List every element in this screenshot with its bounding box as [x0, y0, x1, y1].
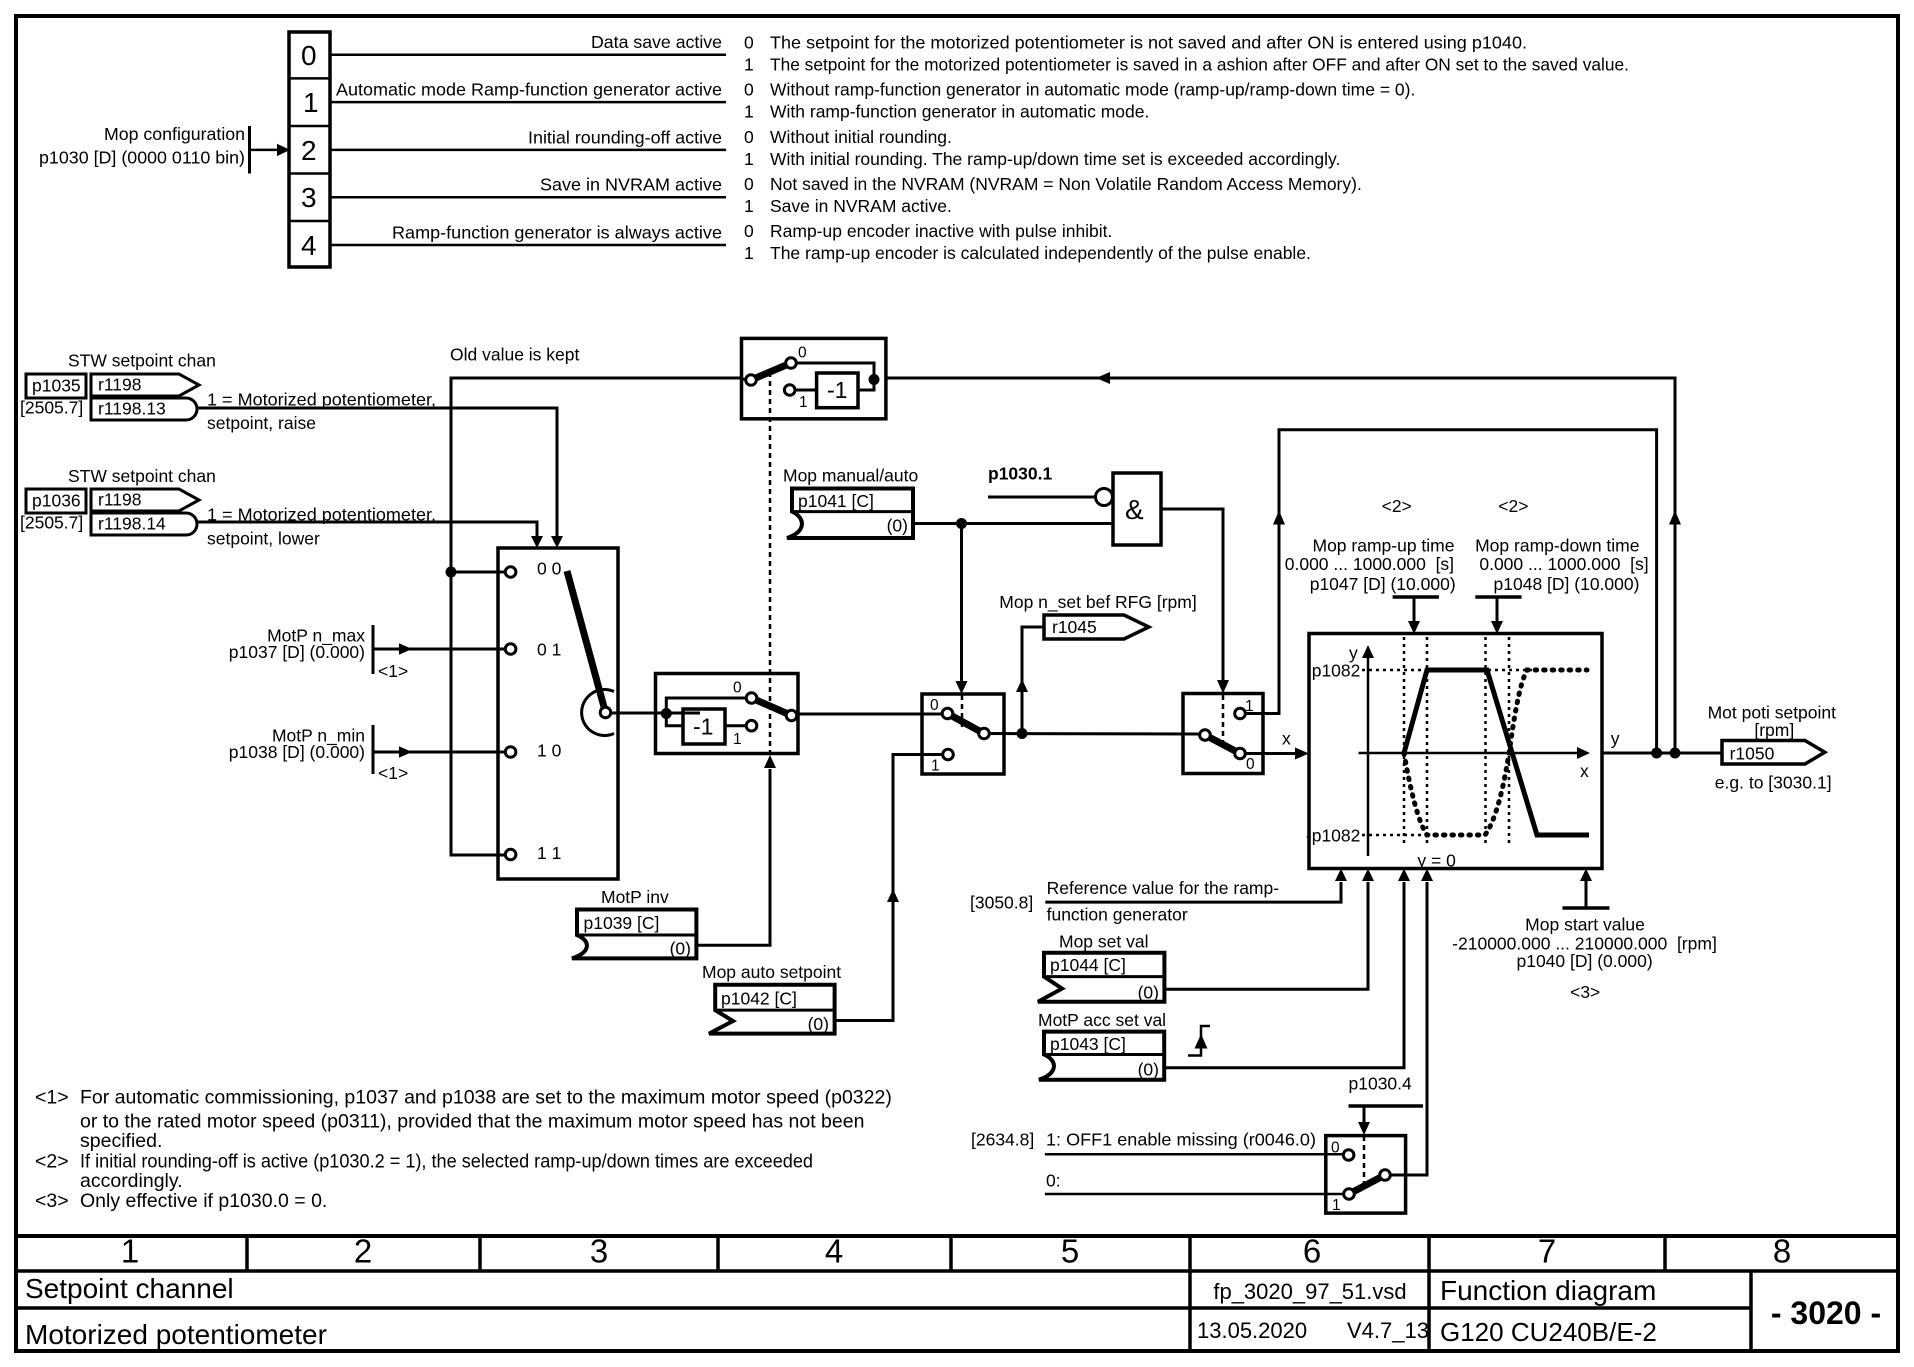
- wire -1 out: [858, 380, 874, 391]
- lever: [1205, 735, 1240, 754]
- wire reference value to RFG: [1045, 882, 1341, 902]
- lever old-value switch: [751, 363, 791, 380]
- wire x into RFG: [1245, 752, 1296, 755]
- selector arc: [582, 690, 614, 736]
- svg-text:y: y: [1611, 729, 1620, 749]
- svg-text:r1050: r1050: [1730, 744, 1775, 764]
- wire 0-contact to output: [791, 363, 874, 380]
- svg-text:Old value is kept: Old value is kept: [450, 345, 580, 365]
- wire OFF1 1-line: [1045, 1153, 1344, 1156]
- connector input p1039: [572, 910, 696, 959]
- T-bar p1048: [1475, 595, 1521, 599]
- svg-text:G120 CU240B/E-2: G120 CU240B/E-2: [1440, 1317, 1657, 1347]
- bit flag r1198.14: [91, 513, 197, 535]
- svg-text:Not saved in the NVRAM (NVRAM: Not saved in the NVRAM (NVRAM = Non Vola…: [770, 174, 1362, 194]
- wire control to manual-auto switch: [960, 524, 963, 683]
- connector output r1050: [1722, 741, 1825, 765]
- svg-text:p1030.4: p1030.4: [1349, 1074, 1413, 1094]
- lever MotP inv switch: [752, 698, 792, 716]
- svg-text:<3>: <3>: [35, 1190, 69, 1212]
- wire bit0: [330, 54, 726, 57]
- svg-text:-p1082: -p1082: [1306, 826, 1361, 846]
- svg-text:0: 0: [744, 174, 754, 194]
- svg-text:0: 0: [1331, 1139, 1340, 1156]
- svg-text:4: 4: [301, 230, 317, 261]
- ramp solid curve: [1404, 670, 1589, 835]
- ramp dashed curve: [1404, 670, 1587, 835]
- wire p1042 to manual/auto switch: [835, 755, 943, 1021]
- notes: [35, 1086, 892, 1212]
- wire old value feedback left: [451, 378, 742, 855]
- title block: [16, 1236, 1898, 1351]
- contact 01: [505, 644, 516, 655]
- wire hold feedback up: [1245, 430, 1657, 753]
- svg-text:specified.: specified.: [80, 1130, 162, 1152]
- svg-text:p1041 [C]: p1041 [C]: [798, 491, 874, 511]
- bit value descriptions: [744, 33, 1629, 264]
- svg-text:7: 7: [1538, 1233, 1556, 1270]
- binector input p1042: [709, 985, 835, 1034]
- wire p1044 to RFG: [1164, 882, 1368, 989]
- svg-text:setpoint, raise: setpoint, raise: [207, 413, 316, 433]
- svg-text:1: 1: [121, 1233, 139, 1270]
- AND gate with inverted input: [1113, 473, 1161, 545]
- dashed control: [961, 695, 964, 729]
- wire bit1: [330, 101, 726, 104]
- svg-text:0:: 0:: [1046, 1171, 1061, 1191]
- svg-text:(0): (0): [1138, 1060, 1159, 1080]
- svg-text:[rpm]: [rpm]: [1754, 720, 1794, 740]
- svg-text:(0): (0): [808, 1014, 829, 1034]
- svg-text:0: 0: [301, 40, 317, 71]
- svg-text:0: 0: [744, 127, 754, 147]
- switch box OFF1: [1326, 1136, 1406, 1214]
- svg-text:Without initial rounding.: Without initial rounding.: [770, 127, 952, 147]
- svg-text:Data save active: Data save active: [591, 32, 722, 52]
- wire p1030 to box: [250, 149, 279, 152]
- svg-text:2: 2: [301, 135, 317, 166]
- svg-text:p1043 [C]: p1043 [C]: [1050, 1034, 1126, 1054]
- svg-text:function generator: function generator: [1047, 905, 1188, 925]
- svg-text:6: 6: [1303, 1233, 1321, 1270]
- svg-text:accordingly.: accordingly.: [80, 1170, 183, 1192]
- x axis: [1359, 752, 1579, 755]
- RFG bottom input arrows: [1335, 869, 1347, 882]
- wire raise to selector: [197, 408, 557, 536]
- wire bit4: [330, 244, 726, 247]
- svg-text:0.000 ... 1000.000 [s]: 0.000 ... 1000.000 [s]: [1285, 554, 1454, 574]
- svg-text:p1047 [D] (10.000): p1047 [D] (10.000): [1310, 574, 1456, 594]
- 1 contact: [1235, 708, 1246, 719]
- svg-text:STW setpoint chan: STW setpoint chan: [68, 466, 216, 486]
- wire out to hold switch: [989, 732, 1200, 736]
- svg-text:0: 0: [1246, 756, 1255, 773]
- dashed control: [1363, 1136, 1366, 1184]
- bit flag r1198.13: [91, 398, 197, 420]
- 0 contact: [1343, 1150, 1354, 1161]
- svg-text:Only effective if p1030.0 = 0.: Only effective if p1030.0 = 0.: [80, 1190, 327, 1212]
- binector flag r1198: [91, 374, 199, 396]
- svg-text:0: 0: [744, 221, 754, 241]
- svg-text:Motorized potentiometer: Motorized potentiometer: [25, 1319, 327, 1350]
- svg-text:fp_3020_97_51.vsd: fp_3020_97_51.vsd: [1213, 1279, 1406, 1304]
- svg-text:p1037 [D] (0.000): p1037 [D] (0.000): [229, 642, 365, 662]
- ramp-function generator box: [1309, 634, 1602, 869]
- svg-text:p1036: p1036: [32, 491, 81, 511]
- lever: [948, 714, 985, 734]
- parameter box p1035: [26, 374, 86, 398]
- svg-text:1: 1: [1332, 1197, 1341, 1214]
- svg-text:Ramp-up encoder inactive with: Ramp-up encoder inactive with pulse inhi…: [770, 221, 1112, 241]
- svg-text:r1045: r1045: [1052, 617, 1097, 637]
- column numbers: [121, 1233, 1791, 1270]
- wire old-value feedback: [886, 378, 1675, 753]
- svg-text:MotP inv: MotP inv: [601, 887, 669, 907]
- svg-text:With initial rounding. The ram: With initial rounding. The ramp-up/down …: [770, 149, 1340, 169]
- svg-text:1: 1: [744, 243, 754, 263]
- svg-text:<3>: <3>: [1570, 982, 1600, 1002]
- junction hold feedback: [1651, 748, 1662, 759]
- contact 10: [505, 747, 516, 758]
- svg-text:(0): (0): [670, 939, 691, 959]
- bit-field box p1030: [289, 32, 330, 267]
- svg-text:<2>: <2>: [1498, 496, 1528, 516]
- svg-text:Save in NVRAM active.: Save in NVRAM active.: [770, 196, 952, 216]
- svg-text:[2634.8]: [2634.8]: [971, 1130, 1034, 1150]
- svg-text:4: 4: [825, 1233, 843, 1270]
- svg-text:- 3020 -: - 3020 -: [1771, 1295, 1881, 1331]
- svg-text:(0): (0): [1138, 983, 1159, 1003]
- svg-text:<2>: <2>: [1382, 496, 1412, 516]
- 1 contact: [784, 385, 795, 396]
- wire p1038 to selector: [373, 751, 505, 754]
- svg-text:[2505.7]: [2505.7]: [20, 513, 83, 533]
- svg-text:Automatic mode Ramp-function g: Automatic mode Ramp-function generator a…: [336, 80, 722, 100]
- wire RFG output: [1602, 752, 1723, 755]
- wire bit3: [330, 196, 726, 199]
- svg-text:p1082: p1082: [1312, 660, 1361, 680]
- 1 contact: [943, 749, 954, 760]
- T-bar p1040: [1563, 906, 1610, 910]
- dotted verticals ramp times: [1403, 637, 1406, 846]
- svg-text:-1: -1: [693, 714, 713, 740]
- inverter -1 box: [683, 709, 725, 744]
- svg-text:setpoint, lower: setpoint, lower: [207, 529, 320, 549]
- svg-text:<1>: <1>: [378, 763, 408, 783]
- wire p1041 out: [913, 522, 1113, 525]
- inverter -1 box: [817, 373, 858, 408]
- wire stub to common contact: [742, 378, 749, 382]
- switch box RFG hold: [1183, 694, 1263, 774]
- binector flag r1198: [91, 489, 199, 511]
- common contact: [786, 710, 797, 721]
- dashed control: [1222, 695, 1225, 749]
- svg-text:x: x: [1282, 729, 1291, 749]
- svg-text:p1035: p1035: [32, 376, 81, 396]
- svg-text:Function diagram: Function diagram: [1440, 1275, 1656, 1306]
- svg-text:V4.7_13: V4.7_13: [1347, 1318, 1429, 1343]
- svg-text:r1198: r1198: [98, 490, 141, 510]
- svg-text:p1042 [C]: p1042 [C]: [721, 989, 797, 1009]
- svg-text:The setpoint for the motorized: The setpoint for the motorized potentiom…: [770, 33, 1527, 53]
- 1 contact: [1344, 1189, 1355, 1200]
- svg-text:MotP acc set val: MotP acc set val: [1038, 1010, 1166, 1030]
- wire feedback to 00 contact: [451, 571, 505, 574]
- svg-text:p1048 [D] (10.000): p1048 [D] (10.000): [1494, 574, 1640, 594]
- selector switch box: [498, 548, 618, 879]
- contact 00: [505, 567, 516, 578]
- rising edge symbol: [1188, 1026, 1210, 1056]
- junction in old-value box: [869, 374, 880, 385]
- svg-text:STW setpoint chan: STW setpoint chan: [68, 351, 216, 371]
- svg-text:<1>: <1>: [35, 1086, 69, 1108]
- svg-text:1: 1: [744, 102, 754, 122]
- svg-text:p1040 [D] (0.000): p1040 [D] (0.000): [1516, 951, 1652, 971]
- svg-text:p1039 [C]: p1039 [C]: [584, 913, 660, 933]
- junction old-value feedback: [1670, 748, 1681, 759]
- svg-text:[3050.8]: [3050.8]: [970, 893, 1033, 913]
- svg-text:Setpoint channel: Setpoint channel: [25, 1273, 234, 1304]
- svg-text:2: 2: [354, 1233, 372, 1270]
- svg-text:Reference value for the ramp-: Reference value for the ramp-: [1047, 878, 1280, 898]
- svg-text:Ramp-function generator is alw: Ramp-function generator is always active: [392, 223, 722, 243]
- svg-text:If initial rounding-off is act: If initial rounding-off is active (p1030…: [80, 1151, 813, 1173]
- svg-text:1: 1: [744, 196, 754, 216]
- dotted level p1082: [1362, 669, 1532, 672]
- svg-text:The ramp-up encoder is calcula: The ramp-up encoder is calculated indepe…: [770, 243, 1311, 263]
- svg-text:0 0: 0 0: [537, 559, 562, 579]
- wire -1 to 1 contact: [725, 724, 752, 727]
- wire OFF1 out to RFG: [1390, 882, 1427, 1175]
- svg-text:1: 1: [931, 757, 940, 774]
- common contact: [979, 728, 990, 739]
- svg-text:Mop n_set bef RFG [rpm]: Mop n_set bef RFG [rpm]: [999, 592, 1196, 613]
- switch box MotP inv: [656, 674, 799, 754]
- svg-text:Mop manual/auto: Mop manual/auto: [783, 466, 918, 486]
- svg-text:5: 5: [1061, 1233, 1079, 1270]
- svg-text:p1038 [D] (0.000): p1038 [D] (0.000): [229, 742, 365, 762]
- svg-text:1: 1: [744, 149, 754, 169]
- svg-text:x: x: [1580, 761, 1589, 781]
- wire 1-contact to -1: [790, 389, 817, 392]
- svg-text:0: 0: [798, 345, 807, 362]
- svg-text:r1198.14: r1198.14: [98, 514, 166, 534]
- 0 contact: [786, 358, 797, 369]
- tick p1030: [248, 126, 251, 174]
- binector input p1044: [1038, 953, 1164, 1002]
- svg-text:Initial rounding-off active: Initial rounding-off active: [528, 128, 722, 148]
- contact 11: [505, 849, 516, 860]
- 0 contact: [746, 693, 757, 704]
- junction r1045 branch: [1017, 728, 1028, 739]
- tick p1037: [372, 625, 375, 674]
- svg-text:1: 1: [733, 731, 742, 748]
- svg-text:1 0: 1 0: [537, 741, 562, 761]
- wire to -1: [666, 714, 683, 726]
- svg-text:or to the rated motor speed (p: or to the rated motor speed (p0311), pro…: [80, 1110, 864, 1132]
- svg-text:1: 1: [744, 55, 754, 75]
- svg-text:-1: -1: [827, 377, 847, 403]
- wire selector output: [611, 712, 701, 715]
- wire to 0 contact: [666, 698, 747, 714]
- svg-text:3: 3: [301, 182, 317, 213]
- svg-text:Mop start value: Mop start value: [1525, 915, 1645, 935]
- svg-text:0: 0: [744, 80, 754, 100]
- svg-text:With ramp-function generator i: With ramp-function generator in automati…: [770, 102, 1149, 122]
- 1 contact: [746, 720, 757, 731]
- svg-text:p1030 [D] (0000 0110 bin): p1030 [D] (0000 0110 bin): [39, 148, 245, 168]
- selector common contact: [600, 707, 611, 718]
- lever: [1349, 1175, 1385, 1194]
- junction input: [661, 708, 672, 719]
- switch box old-value (top middle): [742, 338, 886, 418]
- wire OFF1 0-line: [1045, 1193, 1344, 1196]
- svg-text:1: 1: [303, 87, 319, 118]
- svg-text:Mop ramp-down time: Mop ramp-down time: [1475, 536, 1639, 556]
- svg-text:0 1: 0 1: [537, 640, 561, 660]
- svg-text:<1>: <1>: [378, 661, 408, 681]
- svg-text:[2505.7]: [2505.7]: [20, 398, 83, 418]
- svg-text:Mop auto setpoint: Mop auto setpoint: [702, 962, 841, 982]
- svg-text:r1198.13: r1198.13: [98, 399, 166, 419]
- switch box manual/auto select: [922, 694, 1004, 774]
- 0 contact: [1235, 748, 1246, 759]
- wire r1045 branch: [1022, 627, 1044, 734]
- svg-text:0: 0: [744, 33, 754, 53]
- svg-text:&: &: [1125, 494, 1144, 525]
- svg-text:0: 0: [733, 680, 742, 697]
- svg-text:Mop ramp-up time: Mop ramp-up time: [1313, 536, 1455, 556]
- svg-text:e.g. to [3030.1]: e.g. to [3030.1]: [1715, 772, 1832, 792]
- common contact: [1380, 1170, 1391, 1181]
- svg-text:1: OFF1 enable missing (r0046.: 1: OFF1 enable missing (r0046.0): [1046, 1130, 1316, 1150]
- svg-text:3: 3: [590, 1233, 608, 1270]
- wire lower to selector: [197, 522, 537, 536]
- junction node feedback to 00: [446, 567, 457, 578]
- svg-text:1 1: 1 1: [537, 843, 561, 863]
- svg-text:1: 1: [799, 394, 808, 411]
- svg-text:8: 8: [1773, 1233, 1791, 1270]
- wire p1030.1 to AND: [988, 496, 1095, 499]
- wire p1037 to selector: [373, 648, 505, 651]
- svg-text:Mop set val: Mop set val: [1059, 932, 1148, 952]
- common contact: [746, 375, 757, 386]
- connector input p1041: [787, 489, 913, 539]
- svg-text:r1198: r1198: [98, 375, 141, 395]
- wire bit2: [330, 149, 726, 152]
- svg-text:p1044 [C]: p1044 [C]: [1050, 955, 1126, 975]
- T-bar p1047: [1393, 595, 1439, 599]
- svg-text:Without ramp-function generato: Without ramp-function generator in autom…: [770, 80, 1415, 100]
- connector input p1043: [1039, 1032, 1164, 1080]
- svg-text:Mop configuration: Mop configuration: [104, 124, 245, 144]
- wire p1039 to MotP inv switch: [696, 769, 770, 945]
- wire p1043 to RFG: [1164, 882, 1404, 1068]
- svg-text:Save in NVRAM active: Save in NVRAM active: [540, 175, 722, 195]
- 0 contact: [942, 708, 953, 719]
- svg-text:<2>: <2>: [35, 1151, 69, 1173]
- svg-text:y = 0: y = 0: [1417, 851, 1456, 871]
- T-bar p1030.4: [1349, 1104, 1424, 1108]
- svg-text:0.000 ... 1000.000 [s]: 0.000 ... 1000.000 [s]: [1479, 554, 1648, 574]
- svg-text:The setpoint for the motorized: The setpoint for the motorized potentiom…: [770, 55, 1629, 75]
- common contact: [1200, 730, 1211, 741]
- wire MotP inv out to manual-auto switch: [797, 713, 943, 716]
- svg-text:(0): (0): [887, 516, 908, 536]
- dashed control old-value to MotP inv switch: [769, 372, 772, 752]
- svg-text:For automatic commissioning, p: For automatic commissioning, p1037 and p…: [80, 1086, 892, 1108]
- svg-text:13.05.2020: 13.05.2020: [1197, 1318, 1307, 1343]
- svg-text:0: 0: [930, 697, 939, 714]
- parameter box p1036: [26, 489, 86, 513]
- junction p1041: [956, 518, 967, 529]
- svg-text:p1030.1: p1030.1: [988, 464, 1052, 484]
- connector output r1045: [1044, 615, 1149, 639]
- dotted level -p1082: [1362, 834, 1430, 837]
- tick p1038: [372, 725, 375, 774]
- selector lever: [567, 571, 606, 713]
- wire AND out to hold switch: [1161, 509, 1223, 681]
- y axis: [1367, 656, 1370, 856]
